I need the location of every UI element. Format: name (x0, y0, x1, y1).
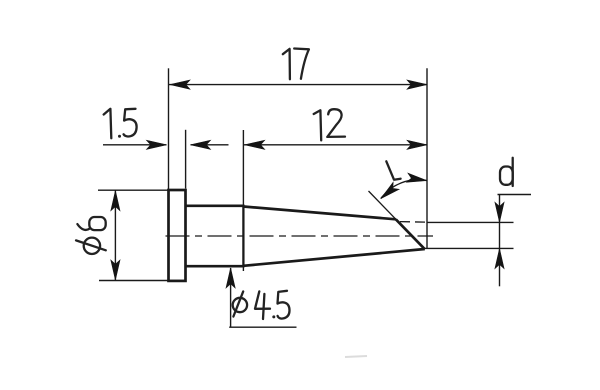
flange (body, diameter 6) (169, 190, 186, 281)
dim dia6 extension bottom (99, 280, 169, 282)
label dia6 : diameter symbol (rotated) (84, 238, 100, 254)
cylinder bottom edge (186, 265, 244, 268)
label L (386, 161, 400, 179)
arrow angle L arc left end (points down-left) (378, 182, 399, 202)
label 17 : digit 1 (283, 49, 290, 79)
dia4.5 leader line (230, 268, 232, 327)
arrow dia4.5 (points up) (226, 268, 235, 288)
dim 1.5 tail right (191, 144, 229, 146)
label 12 : digit 1 (314, 110, 322, 140)
dim 1.5 tail left (103, 144, 167, 146)
dim 17 dimension line (169, 84, 428, 86)
label 17 : digit 7 (294, 49, 309, 79)
label 12 : digit 2 (327, 109, 345, 137)
arrow dim1.5 right (points left) (191, 140, 211, 149)
label d : bowl (500, 167, 513, 185)
label 1.5 : decimal dot (118, 135, 121, 138)
dim 17 extension line left (168, 68, 170, 190)
arrow dim d bottom (points up) (495, 249, 504, 269)
arrow dim12 left (245, 140, 265, 149)
arrow angle L arc right end (points right) (407, 173, 428, 185)
cone bottom edge (243, 249, 424, 266)
label dia4.5 : diameter symbol (233, 298, 247, 312)
label d : stem (512, 158, 514, 186)
dim dia6 dimension line (114, 190, 116, 280)
dim 17/12 extension line right (426, 68, 428, 249)
bevel cut thin construction line (369, 191, 398, 221)
dim 12 dimension line (243, 144, 427, 146)
dim 1.5 extension line (flange right edge ext) (185, 130, 187, 189)
angle L arc (381, 180, 427, 199)
dia4.5 leader shelf (229, 326, 296, 328)
cone top edge (243, 207, 395, 220)
dim d extension top dashed part (hidden line from bevel) (400, 221, 427, 224)
dim d dimension line (499, 195, 501, 287)
label 1.5 : digit 1 (104, 109, 112, 138)
label dia4.5 : digit 5 (278, 291, 290, 319)
dim d extension top (427, 221, 514, 223)
label dia4.5 : digit 4 (255, 291, 270, 308)
dim d leader shelf (498, 194, 532, 196)
arrow dim17 right (407, 80, 427, 89)
arrow dim1.5 left (points right) (147, 140, 167, 149)
arrow dia6 top (points up) (111, 191, 120, 211)
centerline (166, 235, 434, 237)
faint artifact line bottom (345, 356, 367, 357)
dim d extension bottom (425, 247, 514, 249)
arrow dim17 left (170, 80, 190, 89)
arrow dia6 bottom (points down) (111, 260, 120, 280)
cylinder top edge (186, 204, 244, 207)
label dia6 : digit 6 (rotated) (89, 217, 105, 230)
junction line cylinder/cone with extension of dim 12 (242, 130, 244, 271)
label 1.5 : digit 5 (124, 109, 137, 137)
label dia4.5 : decimal dot (272, 315, 275, 318)
arrow dim d top (points down) (495, 202, 504, 222)
arrow dim12 right (407, 140, 427, 149)
dim dia6 extension top (98, 189, 169, 191)
bevel cut thick edge (396, 219, 425, 249)
